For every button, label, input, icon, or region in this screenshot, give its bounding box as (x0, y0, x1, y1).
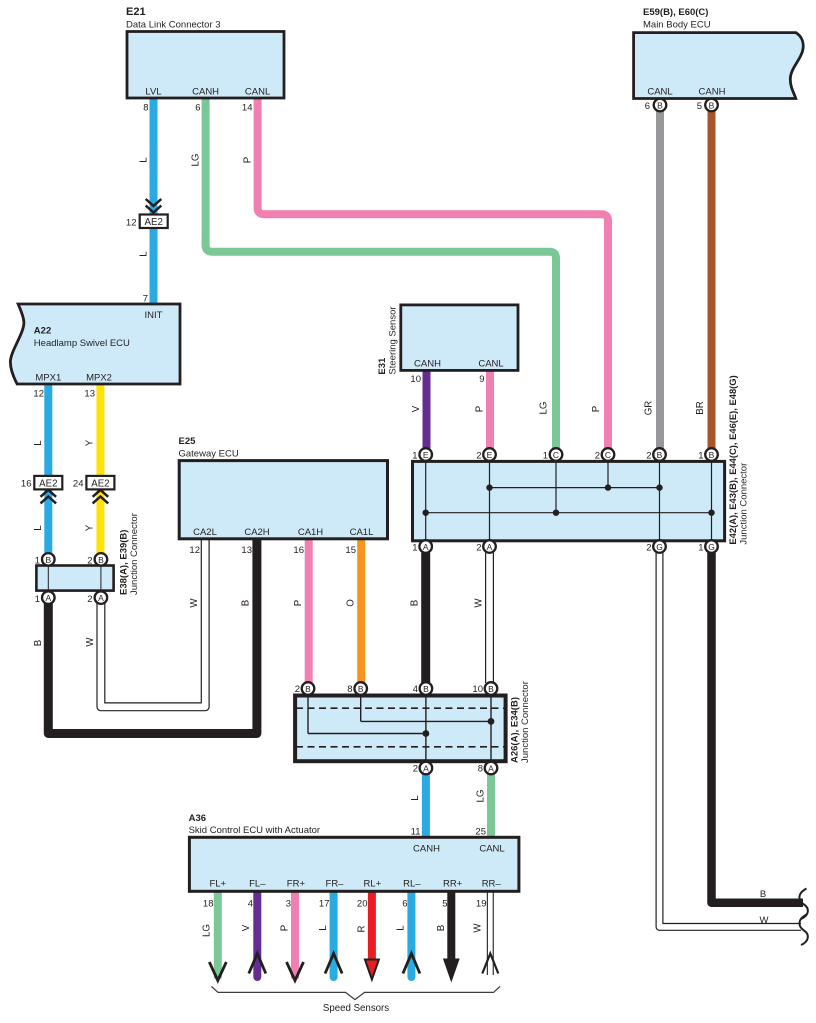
svg-text:P: P (243, 157, 254, 163)
svg-text:CA1H: CA1H (298, 527, 323, 538)
junction E38 internal wire 1 (47, 566, 49, 590)
svg-text:17: 17 (319, 899, 330, 910)
svg-text:W: W (760, 915, 769, 926)
svg-text:1: 1 (412, 451, 417, 462)
wire B (black) junction E42 1G to right break (712, 553, 804, 903)
pin ring E42 1B (705, 448, 718, 461)
svg-text:B: B (45, 555, 51, 565)
svg-text:Main Body ECU: Main Body ECU (643, 20, 711, 31)
wire O (orange) E25 CA1L pin 15 to junction A26 8B (357, 539, 365, 683)
wire P (pink) E31 CANL pin 9 to junction E42 2E (486, 370, 494, 450)
svg-text:2: 2 (646, 451, 651, 462)
svg-text:V: V (241, 924, 252, 931)
junction A26 dashed separator lower (296, 746, 505, 748)
ECU A36 Skid Control ECU with Actuator (189, 837, 519, 891)
svg-text:B: B (305, 684, 311, 694)
pin ring E38 2A (95, 591, 108, 604)
junction E42 internal vertical 1E-1A (425, 462, 427, 540)
wire B (black) junction E38 1A to E25 CA2H pin 13 (48, 539, 257, 734)
svg-text:B: B (98, 555, 104, 565)
svg-text:LG: LG (191, 154, 202, 167)
svg-text:9: 9 (479, 374, 484, 385)
svg-text:E31: E31 (377, 357, 388, 375)
svg-text:Junction Connector: Junction Connector (739, 463, 750, 545)
brace speed sensors group (212, 987, 501, 1000)
junction A26 internal vertical 8B (360, 696, 362, 721)
svg-text:1: 1 (543, 451, 548, 462)
wire L (blue) E21 LVL pin 8 to A22 INIT pin 7 (150, 98, 158, 305)
svg-text:B: B (709, 100, 715, 110)
svg-text:E: E (423, 450, 429, 460)
svg-text:L: L (139, 157, 150, 163)
svg-text:LG: LG (202, 924, 213, 937)
pin ring E42 1E (419, 448, 432, 461)
svg-text:W: W (474, 598, 485, 608)
svg-text:CANH: CANH (699, 87, 726, 98)
wire L (blue) junction A26 2A to A36 CANH pin 11 (422, 774, 430, 839)
svg-text:MPX1: MPX1 (35, 373, 61, 384)
svg-text:Data Link Connector 3: Data Link Connector 3 (126, 20, 221, 31)
wire L (blue) A22 MPX1 pin 12 to junction E38 1B (44, 384, 52, 554)
junction A26 dashed separator upper (296, 707, 505, 709)
svg-text:E25: E25 (179, 436, 197, 447)
junction E42 node dot 2B (656, 484, 662, 490)
svg-text:6: 6 (195, 103, 200, 114)
junction E38 internal wire 2 (100, 566, 102, 590)
svg-text:CA1L: CA1L (350, 527, 374, 538)
svg-text:AE2: AE2 (39, 478, 57, 489)
junction connector A26(A) E34(B) box (295, 696, 506, 762)
svg-text:GR: GR (644, 401, 655, 416)
svg-text:5: 5 (442, 899, 447, 910)
svg-text:13: 13 (84, 389, 95, 400)
pin ring A26 2B (302, 682, 315, 695)
svg-text:24: 24 (73, 479, 84, 490)
svg-text:1: 1 (412, 543, 417, 554)
junction E42 node dot 1G (708, 510, 714, 516)
svg-text:Steering Sensor: Steering Sensor (388, 306, 399, 374)
wire LG (green) E21 CANH pin 6 to junction E42 1C (206, 98, 556, 450)
svg-text:18: 18 (203, 899, 214, 910)
inline connector AE2 pin 24 box on wire Y (86, 476, 114, 490)
svg-text:MPX2: MPX2 (86, 373, 112, 384)
svg-text:L: L (410, 795, 421, 801)
wire W (white) junction E42 2A to junction A26 10B (485, 553, 494, 683)
junction E42 node dot 2C (605, 484, 611, 490)
wire P (pink) A36 FR+ pin 3 to speed sensor (291, 891, 299, 979)
junction A26 internal link 8B to 10B (361, 720, 491, 722)
break squiggle on wire W right edge (799, 915, 807, 946)
svg-text:12: 12 (126, 218, 137, 229)
svg-text:CANH: CANH (414, 359, 441, 370)
svg-text:Gateway ECU: Gateway ECU (179, 449, 239, 460)
svg-text:B: B (410, 600, 421, 606)
svg-text:2: 2 (476, 451, 481, 462)
chevron arrows pointing up below AE2 pin 24 (93, 490, 109, 504)
svg-text:B: B (358, 684, 364, 694)
junction A26 internal vertical 2B (307, 696, 309, 734)
wire W (white) junction E38 2A to E25 CA2L pin 12 (101, 539, 205, 707)
svg-text:W: W (85, 637, 96, 647)
svg-text:A22: A22 (34, 326, 51, 337)
svg-text:A: A (487, 542, 493, 552)
svg-text:16: 16 (21, 479, 32, 490)
svg-text:12: 12 (33, 389, 44, 400)
junction A26 node dot on 10B (488, 718, 495, 725)
svg-text:A: A (488, 763, 494, 773)
pin ring A26 8A (485, 762, 498, 775)
pin ring E42 1G (705, 540, 718, 553)
svg-text:INIT: INIT (145, 310, 163, 321)
wire P (pink) E25 CA1H pin 16 to junction A26 2B (305, 539, 313, 683)
svg-text:Skid Control ECU with Actuator: Skid Control ECU with Actuator (189, 825, 320, 836)
pin ring A26 8B (354, 682, 367, 695)
svg-text:A: A (98, 593, 104, 603)
svg-text:Y: Y (85, 439, 96, 446)
svg-text:15: 15 (345, 545, 356, 556)
wire LG (green) A36 FL+ pin 18 to speed sensor (214, 891, 222, 979)
pin ring E42 2E (483, 448, 496, 461)
pin ring E38 1B (42, 553, 55, 566)
junction E42 node dot 1C (553, 510, 559, 516)
inline connector AE2 pin 12 box on wire L (140, 215, 168, 229)
svg-text:O: O (346, 599, 357, 607)
svg-text:P: P (293, 600, 304, 606)
svg-text:P: P (280, 925, 291, 931)
svg-text:2: 2 (646, 543, 651, 554)
svg-text:L: L (33, 525, 44, 531)
svg-text:L: L (139, 251, 150, 257)
arrow chevron up on FR- wire (325, 954, 342, 974)
junction A26 node dot on 4B (423, 730, 430, 737)
junction E42 internal bus line lower (426, 512, 712, 514)
svg-text:W: W (189, 598, 200, 608)
junction A26 internal link 2B to 4B (308, 733, 426, 735)
pin ring E38 2B (95, 553, 108, 566)
svg-text:FR+: FR+ (287, 879, 306, 890)
wire L (blue) A36 RL- pin 6 to speed sensor (407, 891, 415, 977)
chevron arrows pointing up below AE2 pin 16 (41, 490, 57, 504)
svg-text:A: A (423, 542, 429, 552)
svg-text:E: E (487, 450, 493, 460)
svg-text:10: 10 (472, 684, 483, 695)
svg-text:Headlamp Swivel ECU: Headlamp Swivel ECU (34, 338, 130, 349)
svg-text:19: 19 (476, 899, 487, 910)
svg-text:CANH: CANH (413, 844, 440, 855)
svg-text:E38(A), E39(B): E38(A), E39(B) (119, 530, 130, 595)
wire LG (green) junction A26 8A to A36 CANL pin 25 (487, 774, 495, 839)
junction E42 internal vertical 1B-1G (711, 462, 713, 540)
svg-text:B: B (436, 925, 447, 931)
svg-text:13: 13 (241, 545, 252, 556)
svg-text:R: R (357, 926, 368, 933)
arrow chevron up on RR- wire (482, 954, 498, 974)
svg-text:CANH: CANH (192, 87, 219, 98)
junction E42 node dot 1A (423, 510, 429, 516)
junction E42 internal vertical 2B-2G (659, 462, 661, 540)
arrow open V down on FR+ wire (287, 962, 304, 981)
svg-text:2: 2 (413, 764, 418, 775)
wire L (blue) A36 FR- pin 17 to speed sensor (330, 891, 338, 977)
junction connector E42(A) E43(B) E44(C) E46(E) E48(G) box (413, 461, 725, 540)
junction E42 internal vertical 1C (555, 462, 557, 513)
svg-text:16: 16 (293, 545, 304, 556)
pin ring E42 2G (653, 540, 666, 553)
svg-text:B: B (657, 100, 663, 110)
svg-text:G: G (656, 542, 663, 552)
svg-text:C: C (553, 450, 559, 460)
pin ring E42 1C (550, 448, 563, 461)
svg-text:RL+: RL+ (363, 879, 381, 890)
wire B (black) junction E42 1A to junction A26 4B (421, 553, 430, 683)
svg-text:2: 2 (476, 543, 481, 554)
svg-text:4: 4 (248, 899, 253, 910)
svg-text:RR–: RR– (482, 879, 502, 890)
pin ring A26 10B (485, 682, 498, 695)
svg-text:LG: LG (476, 790, 487, 803)
pin ring A26 4B (420, 682, 433, 695)
svg-text:FR–: FR– (326, 879, 345, 890)
wire BR (brown) E59 CANH pin 5 to junction E42 1B (708, 111, 716, 451)
svg-text:1: 1 (698, 451, 703, 462)
pin ring E59 CANL 6 B (654, 99, 667, 112)
svg-text:W: W (473, 923, 484, 933)
pin ring E42 1A (419, 540, 432, 553)
svg-text:A26(A), E34(B): A26(A), E34(B) (510, 697, 521, 763)
svg-text:10: 10 (410, 374, 421, 385)
svg-text:B: B (33, 640, 44, 646)
svg-text:1: 1 (35, 556, 40, 567)
svg-text:B: B (760, 889, 766, 900)
wire P (pink) E21 CANL pin 14 to junction E42 2C (258, 98, 608, 450)
svg-text:B: B (709, 450, 715, 460)
wire R (red) A36 RL+ pin 20 to speed sensor (368, 891, 376, 961)
ECU A22 Headlamp Swivel ECU (torn left edge) (10, 304, 180, 384)
svg-text:E21: E21 (126, 6, 146, 18)
arrow open V down on FL+ wire (209, 962, 226, 981)
svg-text:14: 14 (242, 103, 253, 114)
svg-text:25: 25 (475, 827, 486, 838)
svg-text:8: 8 (143, 103, 148, 114)
svg-text:6: 6 (402, 899, 407, 910)
svg-text:E42(A), E43(B), E44(C), E46(E): E42(A), E43(B), E44(C), E46(E), E48(G) (727, 375, 738, 544)
svg-text:5: 5 (697, 101, 702, 112)
wire GR (gray) E59 CANL pin 6 to junction E42 2B (656, 111, 664, 451)
svg-text:B: B (423, 684, 429, 694)
svg-text:L: L (318, 925, 329, 931)
wire W (white) A36 RR- pin 19 to speed sensor (487, 891, 494, 975)
pin ring E42 2B (653, 448, 666, 461)
svg-text:CA2H: CA2H (244, 527, 269, 538)
svg-text:A: A (423, 763, 429, 773)
svg-text:1: 1 (35, 594, 40, 605)
arrow filled down on RR+ wire (444, 960, 458, 980)
svg-text:8: 8 (478, 764, 483, 775)
svg-text:2: 2 (87, 556, 92, 567)
svg-text:12: 12 (189, 545, 200, 556)
svg-text:G: G (708, 542, 715, 552)
svg-text:CA2L: CA2L (193, 527, 217, 538)
svg-text:Y: Y (85, 524, 96, 531)
svg-text:LVL: LVL (145, 87, 161, 98)
svg-text:RL–: RL– (403, 879, 421, 890)
svg-text:AE2: AE2 (145, 217, 163, 228)
junction E42 internal vertical 2E-2A (489, 462, 491, 540)
inline connector AE2 pin 16 box on wire L (34, 476, 62, 490)
svg-text:7: 7 (143, 294, 148, 305)
sensor E31 Steering Sensor (401, 305, 518, 371)
svg-text:LG: LG (539, 402, 550, 415)
svg-text:V: V (411, 405, 422, 412)
svg-text:Speed Sensors: Speed Sensors (323, 1003, 389, 1014)
svg-text:20: 20 (357, 899, 368, 910)
svg-text:CANL: CANL (245, 87, 270, 98)
pin ring A26 2A (420, 762, 433, 775)
pin ring E38 1A (42, 591, 55, 604)
svg-text:BR: BR (695, 401, 706, 414)
svg-text:RR+: RR+ (443, 879, 463, 890)
pin ring E42 2C (602, 448, 615, 461)
arrow chevron up on RL- wire (403, 954, 420, 974)
svg-text:1: 1 (698, 543, 703, 554)
wire Y (yellow) A22 MPX2 pin 13 to junction E38 2B (96, 384, 104, 554)
wire B (black) A36 RR+ pin 5 to speed sensor (447, 891, 455, 961)
svg-text:CANL: CANL (478, 359, 503, 370)
connector E21 Data Link Connector 3 (127, 32, 284, 99)
svg-text:B: B (657, 450, 663, 460)
svg-text:Junction Connector: Junction Connector (129, 513, 140, 595)
svg-text:P: P (475, 406, 486, 412)
svg-text:3: 3 (286, 899, 291, 910)
pin ring E42 2A (483, 540, 496, 553)
chevron arrows pointing down above AE2 pin 12 (146, 199, 162, 213)
svg-text:AE2: AE2 (91, 478, 109, 489)
svg-text:E59(B), E60(C): E59(B), E60(C) (643, 7, 708, 18)
svg-text:L: L (396, 925, 407, 931)
junction E42 internal vertical 2C (607, 462, 609, 488)
arrow chevron up on FL- wire (249, 954, 266, 974)
svg-text:FL+: FL+ (209, 879, 226, 890)
svg-text:P: P (591, 406, 602, 412)
junction connector E38(A) E39(B) box (36, 566, 113, 591)
break squiggle on wire B right edge (799, 889, 807, 920)
svg-text:2: 2 (87, 594, 92, 605)
svg-text:B: B (241, 600, 252, 606)
ECU E59(B) E60(C) Main Body ECU (torn right edge) (634, 33, 804, 99)
wire V (violet) A36 FL- pin 4 to speed sensor (253, 891, 261, 977)
wire V (violet) E31 CANH pin 10 to junction E42 1E (423, 370, 431, 450)
svg-text:A: A (45, 593, 51, 603)
ECU E25 Gateway ECU (179, 461, 387, 539)
wire W (white) junction E42 2G to right break (660, 553, 802, 927)
junction E42 node dot 2E (486, 484, 492, 490)
svg-text:CANL: CANL (479, 844, 504, 855)
svg-text:Junction Connector: Junction Connector (520, 681, 531, 763)
svg-text:8: 8 (347, 684, 352, 695)
svg-text:FL–: FL– (249, 879, 266, 890)
svg-text:4: 4 (413, 684, 418, 695)
svg-text:2: 2 (595, 451, 600, 462)
pin ring E59 CANH 5 B (705, 99, 718, 112)
svg-text:11: 11 (411, 827, 421, 838)
svg-text:C: C (605, 450, 611, 460)
svg-text:L: L (33, 440, 44, 446)
svg-text:CANL: CANL (647, 87, 672, 98)
arrow filled down on RL+ wire (365, 960, 379, 980)
junction A26 internal vertical 10B-8A (490, 696, 492, 761)
junction E42 internal bus line upper (490, 487, 660, 489)
svg-text:2: 2 (295, 684, 300, 695)
svg-text:6: 6 (645, 101, 650, 112)
svg-text:A36: A36 (189, 813, 206, 824)
svg-text:B: B (488, 684, 494, 694)
junction A26 internal vertical 4B-2A (425, 696, 427, 761)
